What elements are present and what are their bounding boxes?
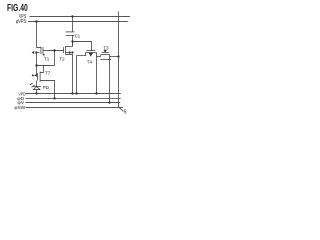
junction C1 bottom node — [71, 40, 73, 42]
arrow T4 — [89, 53, 93, 57]
wire C1 top to VPS rail — [71, 16, 73, 31]
wire T7 source lead to phiD — [40, 80, 54, 98]
svg-text:T1: T1 — [44, 57, 50, 62]
junction T3 phiV — [108, 101, 110, 103]
svg-text:T4: T4 — [87, 60, 93, 65]
junction joint VPD — [95, 92, 97, 94]
svg-text:φSW: φSW — [14, 105, 25, 110]
svg-text:T3: T3 — [103, 45, 109, 50]
wire output column — [118, 11, 123, 111]
wire T1 drain to T2 gate — [43, 49, 63, 51]
svg-text:5: 5 — [124, 110, 127, 116]
wire phiV rail — [26, 102, 121, 104]
wire PD top — [36, 81, 38, 87]
junction y65 node — [35, 64, 37, 66]
wire T4 left leg down to VPD — [77, 52, 86, 93]
arrow T3 — [104, 50, 107, 53]
svg-text:T2: T2 — [59, 57, 65, 62]
wire node drop — [54, 50, 56, 65]
wire T7 drain up to node line — [40, 65, 43, 72]
wire node line y65 — [37, 64, 55, 66]
wire T4-T3 leg joint — [96, 55, 100, 57]
wire T1 gate column down — [36, 53, 38, 75]
junction column T3 — [117, 55, 119, 57]
junction phiVPS — [35, 20, 37, 22]
transistor T3 lower bar — [100, 58, 111, 60]
junction T4 leg VPD — [75, 92, 77, 94]
svg-text:PD: PD — [43, 85, 50, 90]
transistor T7 bars — [37, 73, 39, 80]
wire T2 drain lead up to C1 node — [65, 42, 72, 47]
light arrow 1 — [30, 83, 33, 85]
light arrow 2 — [32, 85, 35, 87]
transistor T1 bars — [40, 47, 42, 54]
svg-text:φVPS: φVPS — [16, 19, 27, 25]
arrow T2 gate — [66, 51, 69, 54]
wire phiVPS drop to T1 gate hook — [37, 21, 41, 48]
wire T3 right leg down to phiV — [109, 57, 111, 103]
wire C1 bottom to node — [71, 35, 73, 46]
wire VPS rail — [30, 15, 130, 17]
wire phiD rail — [26, 97, 121, 99]
wire T1 source stub — [43, 54, 44, 56]
wire VPD rail — [26, 92, 121, 94]
capacitor C1 — [66, 31, 75, 33]
junction C1 top — [71, 15, 73, 17]
wire node to T4 gate — [72, 41, 91, 50]
wire phiVPS rail — [28, 20, 128, 22]
transistor T3 gate lead — [104, 49, 106, 50]
svg-text:C1: C1 — [75, 33, 81, 38]
wire phiSW rail — [26, 106, 123, 108]
svg-text:FIG.40: FIG.40 — [7, 3, 28, 14]
junction PD VPD — [35, 92, 37, 94]
wire T2 source lead down to VPD — [65, 54, 72, 93]
transistor T4 bars — [87, 50, 96, 52]
photodiode PD bar — [33, 85, 41, 87]
wire T4 right leg down to VPD — [95, 52, 97, 93]
transistor T2 bars — [63, 47, 65, 53]
transistor T3 bars — [102, 52, 109, 54]
junction T2 source VPD — [71, 92, 73, 94]
junction drain node — [53, 49, 55, 51]
wire T3 right leg to column — [110, 55, 119, 57]
arrow T7 gate — [32, 74, 34, 76]
wire PD bottom to VPD — [36, 90, 38, 94]
junction T7 phiD — [53, 97, 55, 99]
photodiode triangle — [33, 87, 40, 90]
arrow T1 gate — [32, 51, 35, 54]
svg-text:T7: T7 — [45, 71, 51, 76]
